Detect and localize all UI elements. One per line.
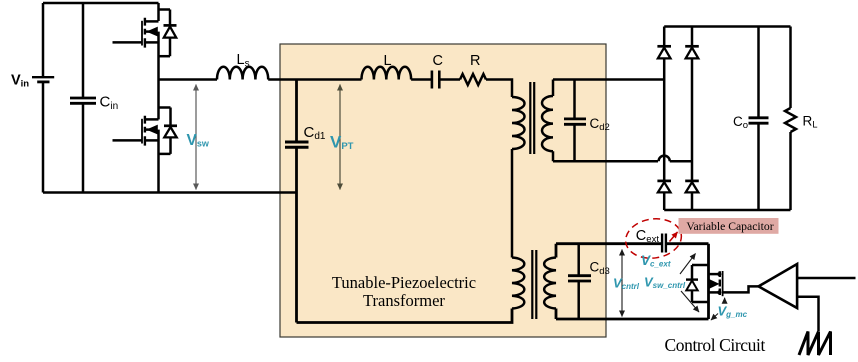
svg-text:R: R bbox=[470, 53, 480, 69]
svg-text:Vsw_cntrl: Vsw_cntrl bbox=[644, 274, 686, 290]
transformer T2 secondary winding bbox=[544, 258, 556, 309]
wire drain top of Q1 bbox=[157, 3, 160, 21]
red pointer arrow to variable capacitor label bbox=[670, 232, 678, 242]
capacitor Co bbox=[749, 116, 769, 119]
wire Cext to control mosfet drain bbox=[666, 242, 709, 245]
wire R to primary bbox=[486, 80, 512, 98]
variable capacitor label box bbox=[679, 218, 779, 234]
wire Cd2 branch bbox=[573, 80, 576, 162]
capacitor C bbox=[431, 71, 434, 89]
wire T2 secondary bottom lead control ground bbox=[556, 309, 709, 320]
svg-text:RL: RL bbox=[803, 114, 818, 131]
transformer T1 primary winding bbox=[512, 97, 525, 149]
inductor L bbox=[362, 67, 412, 80]
wire switch node bbox=[159, 78, 218, 81]
wire hop crossing bbox=[659, 156, 670, 162]
svg-text:Variable Capacitor: Variable Capacitor bbox=[686, 220, 773, 233]
op-amp U1 driver triangle bbox=[759, 264, 798, 308]
wire amplifier input bbox=[797, 277, 855, 280]
transformer T2 primary winding bbox=[512, 258, 524, 309]
wire Cin branch vertical bbox=[82, 3, 85, 97]
sawtooth waveform bbox=[799, 332, 831, 356]
transformer T2 core bbox=[531, 250, 533, 319]
svg-text:Cext: Cext bbox=[636, 228, 660, 245]
transformer T1 secondary winding bbox=[542, 96, 553, 151]
svg-text:Vsw: Vsw bbox=[187, 132, 210, 149]
svg-text:Ls: Ls bbox=[237, 52, 250, 70]
diode D2 body diode of Q2 bbox=[159, 106, 171, 109]
wire bridge top rail bbox=[664, 25, 790, 28]
svg-text:Tunable-Piezoelectric: Tunable-Piezoelectric bbox=[332, 273, 476, 292]
diode D4 bridge top-right bbox=[685, 45, 699, 48]
transistor Q3 control MOSFET bbox=[719, 271, 721, 295]
svg-text:Transformer: Transformer bbox=[363, 291, 445, 310]
node Vcntrl measurement arrow bbox=[621, 250, 623, 317]
wire L to C bbox=[411, 78, 431, 81]
wire left vertical Vin branch bbox=[42, 3, 45, 76]
svg-text:L: L bbox=[384, 53, 392, 69]
wire Ls to box bbox=[268, 78, 361, 81]
annotation arrow Vg_mc bbox=[711, 314, 718, 321]
svg-text:Vcntrl: Vcntrl bbox=[613, 275, 640, 291]
wire control mosfet vertical bbox=[707, 244, 710, 319]
wire sawtooth feed bbox=[797, 297, 818, 331]
capacitor Cd2 bbox=[564, 118, 586, 121]
battery Vin bbox=[32, 76, 54, 78]
wire bridge left leg bbox=[663, 27, 666, 47]
wire bottom rail left section bbox=[43, 191, 297, 194]
transistor Q2 low-side MOSFET bbox=[157, 80, 160, 120]
diode D7 control antiparallel bbox=[692, 264, 709, 267]
capacitor Cd1 bbox=[285, 141, 309, 144]
svg-text:Vg_mc: Vg_mc bbox=[718, 304, 748, 320]
wire primary bottom return bbox=[297, 309, 513, 323]
wire bridge bottom rail bbox=[664, 209, 790, 212]
wire T1 secondary top lead bbox=[553, 80, 664, 97]
annotation arrow gate pointer bbox=[724, 298, 726, 304]
svg-text:Cin: Cin bbox=[100, 94, 119, 113]
wire Cd1 branch bbox=[295, 80, 298, 142]
Tunable piezoelectric transformer box bbox=[280, 44, 606, 337]
svg-text:Vin: Vin bbox=[11, 73, 29, 90]
resistor R bbox=[460, 74, 486, 85]
wire top rail left section bbox=[43, 2, 159, 5]
node Vsw measurement arrow bbox=[195, 85, 197, 190]
transistor Q1 high-side MOSFET bbox=[141, 21, 143, 46]
transformer T1 core bbox=[529, 82, 531, 154]
wire C to R bbox=[439, 78, 460, 81]
inductor Ls bbox=[217, 67, 268, 80]
wire Co branch bbox=[757, 27, 760, 211]
wire T1 secondary bottom lead bbox=[553, 151, 658, 161]
capacitor Cext bbox=[661, 234, 663, 253]
wire bridge right leg bbox=[691, 27, 694, 47]
resistor RL bbox=[789, 27, 792, 109]
diode D3 bridge top-left bbox=[657, 45, 671, 48]
diode D6 bridge bottom-right bbox=[685, 180, 699, 183]
red dashed ellipse around Cext bbox=[623, 215, 684, 261]
wire primary link bbox=[511, 149, 514, 258]
annotation arrow Vsw_cntrl bottom bbox=[681, 291, 699, 312]
annotation arrow Vsw_cntrl top bbox=[680, 254, 696, 275]
wire gate lead to amplifier bbox=[723, 286, 759, 292]
wire T2 secondary top lead to Cext bbox=[556, 244, 662, 258]
wire Cd3 branch bbox=[577, 244, 580, 319]
svg-text:Control Circuit: Control Circuit bbox=[665, 335, 766, 355]
diode D1 body diode of Q1 bbox=[159, 8, 171, 11]
svg-text:C: C bbox=[433, 53, 443, 69]
capacitor Cd3 bbox=[568, 274, 591, 277]
node VPT measurement arrow bbox=[339, 85, 341, 190]
svg-text:Co: Co bbox=[733, 114, 748, 131]
capacitor Cin bbox=[70, 97, 96, 100]
diode D5 bridge bottom-left bbox=[657, 180, 671, 183]
